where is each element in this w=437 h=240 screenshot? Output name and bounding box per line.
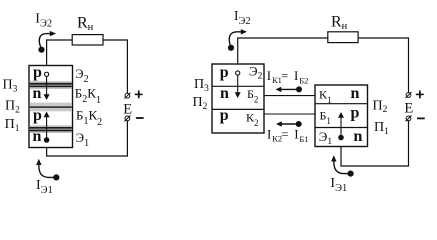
svg-text:П3: П3	[194, 77, 209, 94]
label E (left battery)	[123, 101, 132, 117]
label RH (right)	[331, 13, 348, 32]
junction label П2 (right fig left)	[193, 95, 208, 112]
current arrow IК1=IБ2	[276, 86, 303, 92]
electrode label Э1 (left fig)	[76, 131, 89, 149]
current arrow IЭ1 (left fig)	[36, 159, 59, 181]
current arrow IЭ2 (right fig)	[228, 29, 247, 51]
battery E terminal - (left)	[124, 115, 130, 121]
svg-text:E: E	[404, 100, 413, 116]
wire top from left transistor to resistor	[238, 38, 328, 64]
svg-text:Rн: Rн	[331, 13, 348, 32]
svg-text:IЭ1: IЭ1	[36, 178, 53, 196]
layer label n (T1 emitter)	[354, 128, 363, 145]
electrode label К2 (T2)	[246, 111, 259, 129]
svg-text:E: E	[123, 101, 132, 117]
layer label n (T1 collector)	[351, 85, 360, 102]
svg-text:IК2=IБ1: IК2=IБ1	[267, 126, 309, 144]
layer label p (third, left fig)	[33, 107, 42, 124]
wire resistor to right corner down to battery +	[103, 40, 127, 93]
junction label П3 (right fig)	[194, 77, 209, 94]
junction label П2 (left fig)	[5, 99, 20, 116]
svg-text:П1: П1	[374, 120, 389, 137]
resistor RH (right)	[328, 32, 358, 43]
junction label П2 (right fig right)	[373, 98, 388, 115]
junction П3 band (left fig)	[30, 81, 72, 89]
wire top from structure to resistor	[47, 40, 73, 66]
svg-text:IЭ1: IЭ1	[330, 176, 347, 194]
label IЭ2 (right fig)	[234, 8, 251, 27]
resistor RH (left)	[72, 35, 103, 45]
wire battery - down, bottom wire, up into structure bottom	[47, 121, 128, 156]
svg-text:p: p	[33, 107, 42, 124]
emitter contact circle (top, left fig)	[45, 72, 49, 76]
svg-text:П2: П2	[193, 95, 208, 112]
structure box (p-n-p-n)	[29, 66, 73, 148]
svg-text:n: n	[351, 85, 360, 102]
electrode label Э2 (left fig)	[75, 67, 88, 85]
svg-text:П3: П3	[3, 78, 18, 95]
electrode label Э2 (T2)	[249, 64, 263, 82]
electrode label Б1 (T1)	[320, 109, 331, 127]
label IЭ2 (left fig)	[35, 11, 52, 29]
junction П2 band (left fig)	[30, 103, 72, 112]
arrow down into n layer (left fig)	[44, 77, 50, 100]
layer label n (bottom, left fig)	[33, 128, 42, 145]
layer label p (T2 collector)	[220, 107, 229, 124]
svg-text:p: p	[351, 105, 360, 122]
label IК2=IБ1	[267, 126, 309, 144]
label - (right battery)	[417, 118, 425, 120]
emitter contact circle (T2)	[236, 71, 240, 75]
svg-text:n: n	[220, 85, 229, 102]
wire battery - down, bottom wire, up into transistor T1 emitter	[341, 121, 409, 166]
electrode label Б2К1 (left fig)	[75, 85, 101, 106]
svg-text:Б2К1: Б2К1	[75, 85, 101, 106]
label RH (left)	[77, 15, 94, 33]
svg-text:IЭ2: IЭ2	[35, 11, 52, 29]
current arrow IК2=IБ1	[276, 121, 302, 127]
arrow up into p layer with bottom contact dot (left fig)	[44, 112, 50, 143]
label + (left battery)	[135, 91, 143, 99]
electrode label Б2 (T2)	[247, 87, 258, 105]
svg-text:p: p	[33, 64, 42, 81]
svg-text:П2: П2	[5, 99, 20, 116]
wire Б2 to К1	[264, 95, 315, 97]
label + (right battery)	[416, 91, 424, 99]
transistor T2 box p-n-p (right fig left box)	[212, 64, 264, 133]
svg-text:Э1: Э1	[76, 131, 89, 149]
svg-text:IК1=IБ2: IК1=IБ2	[267, 68, 309, 86]
svg-text:p: p	[220, 64, 229, 81]
arrow up into base p with emitter contact dot (T1)	[338, 112, 344, 140]
layer label p (T1 base)	[351, 105, 360, 122]
layer label n (T2 base)	[220, 85, 229, 102]
current arrow IЭ1 (right fig)	[331, 155, 354, 176]
label IЭ1 (left fig)	[36, 178, 53, 196]
electrode label Б1К2 (left fig)	[76, 107, 102, 128]
svg-text:Б1К2: Б1К2	[76, 107, 102, 128]
layer label p (top, left fig)	[33, 64, 42, 81]
electrode label К1 (T1)	[319, 87, 332, 105]
current arrow IЭ2 (left fig)	[38, 31, 56, 53]
battery E terminal - (right)	[406, 115, 412, 121]
svg-text:n: n	[33, 128, 42, 145]
layer label p (T2 emitter)	[220, 64, 229, 81]
svg-text:Э2: Э2	[75, 67, 88, 85]
junction label П1 (right fig)	[374, 120, 389, 137]
svg-text:П1: П1	[5, 117, 20, 134]
junction label П1 (left fig)	[5, 117, 20, 134]
svg-text:IЭ2: IЭ2	[234, 8, 251, 27]
label IЭ1 (right fig)	[330, 176, 347, 194]
wire resistor to right corner down to battery +	[358, 38, 408, 93]
svg-text:n: n	[354, 128, 363, 145]
layer label n (second, left fig)	[33, 85, 42, 102]
junction label П3 (left fig)	[3, 78, 18, 95]
label - (left battery)	[136, 117, 144, 119]
label E (right battery)	[404, 100, 413, 116]
label IК1=IБ2	[267, 68, 309, 86]
svg-text:Rн: Rн	[77, 15, 94, 33]
electrode label Э1 (T1)	[319, 129, 333, 147]
junction П1 band (left fig)	[30, 125, 72, 132]
arrow down into base n (T2)	[235, 75, 241, 98]
svg-text:p: p	[220, 107, 229, 124]
battery E terminal + (left)	[124, 93, 130, 99]
wire К2 to Б1	[264, 113, 315, 115]
svg-text:n: n	[33, 85, 42, 102]
transistor T1 box n-p-n (right fig right box)	[315, 85, 368, 147]
svg-text:П2: П2	[373, 98, 388, 115]
battery E terminal + (right)	[406, 92, 412, 98]
